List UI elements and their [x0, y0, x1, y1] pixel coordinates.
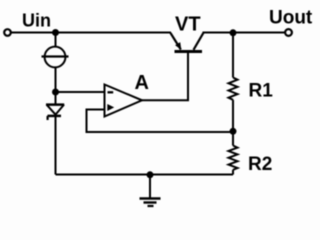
- wire node Z to op-amp top input: [56, 91, 104, 93]
- op-amp A: [105, 85, 143, 117]
- ground: [149, 175, 151, 198]
- svg-text:R1: R1: [249, 81, 274, 102]
- wire current source to node Z: [55, 68, 57, 93]
- terminal Uin: [4, 29, 11, 36]
- wire op-amp output to VT base: [142, 53, 188, 100]
- svg-text:R2: R2: [248, 154, 272, 175]
- terminal Uout: [285, 29, 292, 36]
- zener diode VD: [55, 95, 57, 104]
- svg-text:A: A: [135, 72, 149, 94]
- resistor R1: [232, 33, 234, 78]
- wire junction to current source: [55, 33, 57, 48]
- wire top rail left (Uin terminal to VT emitter): [11, 32, 171, 34]
- transistor VT: [175, 50, 203, 53]
- node Z junction: [52, 89, 59, 96]
- wire bottom rail: [56, 174, 234, 176]
- resistor R2: [232, 131, 234, 145]
- current source I1: [45, 47, 66, 68]
- node R1 top junction: [230, 29, 237, 36]
- wire op-amp bottom input feedback: [87, 110, 234, 133]
- svg-text:Uout: Uout: [269, 8, 313, 29]
- wire top rail right (VT collector to Uout): [203, 32, 286, 34]
- node R1/R2 junction: [230, 128, 237, 135]
- wire zener to bottom rail: [55, 115, 57, 175]
- node ground junction: [147, 171, 154, 178]
- node Uin junction: [52, 29, 59, 36]
- svg-text:Uin: Uin: [22, 11, 51, 31]
- svg-text:VT: VT: [175, 14, 201, 36]
